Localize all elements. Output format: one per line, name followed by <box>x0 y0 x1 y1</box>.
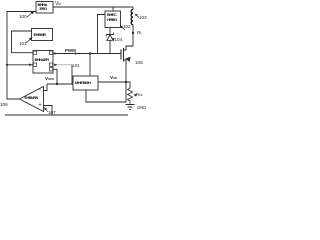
wire bottom rail <box>5 114 128 116</box>
wire driver input from PWM line <box>98 15 106 54</box>
transistor M1 source lead <box>124 60 127 63</box>
ref label 104 for zener <box>115 37 123 42</box>
text U2 driver <box>107 13 119 23</box>
wire Vcs to sense resistor <box>126 82 130 88</box>
ref label 102 for driver <box>123 24 131 29</box>
block B1 input stage <box>36 2 53 14</box>
wire Vsen net <box>47 83 73 85</box>
ref arrow 100 <box>26 10 36 18</box>
node Vcs junction <box>125 81 127 83</box>
text B5 <box>75 80 97 85</box>
wire stub to driver block top <box>112 7 114 11</box>
text opamp <box>25 96 44 100</box>
label PWM <box>65 48 76 53</box>
wire PWM gate line <box>53 53 121 55</box>
wire B5 bottom to Vcs node <box>86 82 126 102</box>
opamp minus <box>39 87 41 93</box>
ref arrow 104 <box>111 37 116 42</box>
ref arrow Rcs <box>133 93 138 98</box>
zener diode D1 104 stub <box>109 28 111 35</box>
wire Vin net <box>53 6 133 8</box>
ref arrow 103 <box>134 13 141 19</box>
wire B3 bottom pin to Vsen <box>53 69 57 84</box>
ref label 301 net <box>73 63 80 68</box>
wire right rail mid <box>126 25 133 49</box>
ref label 105 for mosfet <box>135 60 143 65</box>
wire Vcs from sampler <box>98 81 126 83</box>
pin bottom extra <box>49 68 52 71</box>
node Vsen dot <box>56 83 58 85</box>
pin BL <box>33 63 36 66</box>
wire B4 left to B3 TL pin <box>12 31 34 53</box>
block B4 compensation <box>32 29 53 41</box>
wire source down <box>125 63 127 82</box>
label Vsen <box>45 76 54 81</box>
transistor M1 drain lead <box>124 46 127 50</box>
pin TR <box>49 51 52 54</box>
wire left rail opamp output <box>7 12 36 100</box>
text B3 <box>35 57 53 62</box>
text B4 <box>34 32 52 37</box>
op-amp U1 <box>20 87 44 112</box>
wire zener to gate line <box>109 40 111 53</box>
ref label 107 for opamp <box>48 110 56 115</box>
label Vcs <box>110 75 117 80</box>
arrowhead on BR wire <box>54 64 57 67</box>
node RL junction <box>132 32 134 34</box>
resistor Rcs <box>128 88 133 105</box>
block B3 controller <box>33 51 53 74</box>
ref label 106 near opamp output <box>0 102 8 107</box>
pin TL <box>33 51 36 54</box>
node dot on PWM line <box>75 53 77 55</box>
inductor L1 103 <box>131 10 133 25</box>
wire Vsen to opamp inverting input <box>44 84 48 91</box>
wire branch to B3 BL pin <box>7 64 33 66</box>
ref arrow 101 <box>25 36 35 44</box>
block U2 driver <box>105 11 121 28</box>
wire opamp noninverting input to bottom rail <box>44 106 53 116</box>
wire sampler trigger <box>89 54 91 77</box>
ref arrow 107 <box>43 107 50 113</box>
zener diode D1 104 cathode bar <box>106 33 113 37</box>
ref label 101 for B4 <box>19 41 27 46</box>
label Vin <box>55 1 61 7</box>
wire B3 BR pin to Vsen <box>53 64 72 66</box>
transistor M1 arrow <box>125 57 131 62</box>
pin BR <box>49 63 52 66</box>
junction dot PWM to sampler <box>89 52 91 54</box>
text B1 line1 <box>38 3 52 12</box>
ref arrow 102 <box>119 25 127 32</box>
arrowhead into BL pin <box>29 64 32 67</box>
block B5 sampler <box>73 76 98 90</box>
wire right rail top <box>132 7 134 10</box>
ref label 103 for inductor <box>139 15 147 20</box>
node branch to B3 lower <box>6 64 8 66</box>
label RL <box>137 30 142 35</box>
label Rcs <box>136 92 142 97</box>
label GND <box>137 105 146 110</box>
ground symbol <box>126 105 135 110</box>
opamp plus <box>39 102 42 108</box>
transistor M1 gate bar <box>120 50 122 60</box>
transistor M1 channel bar <box>123 48 125 62</box>
ref label 100 for B1 <box>19 14 27 19</box>
arrowhead on PWM line <box>55 52 58 55</box>
zener diode D1 104 triangle <box>107 35 114 40</box>
